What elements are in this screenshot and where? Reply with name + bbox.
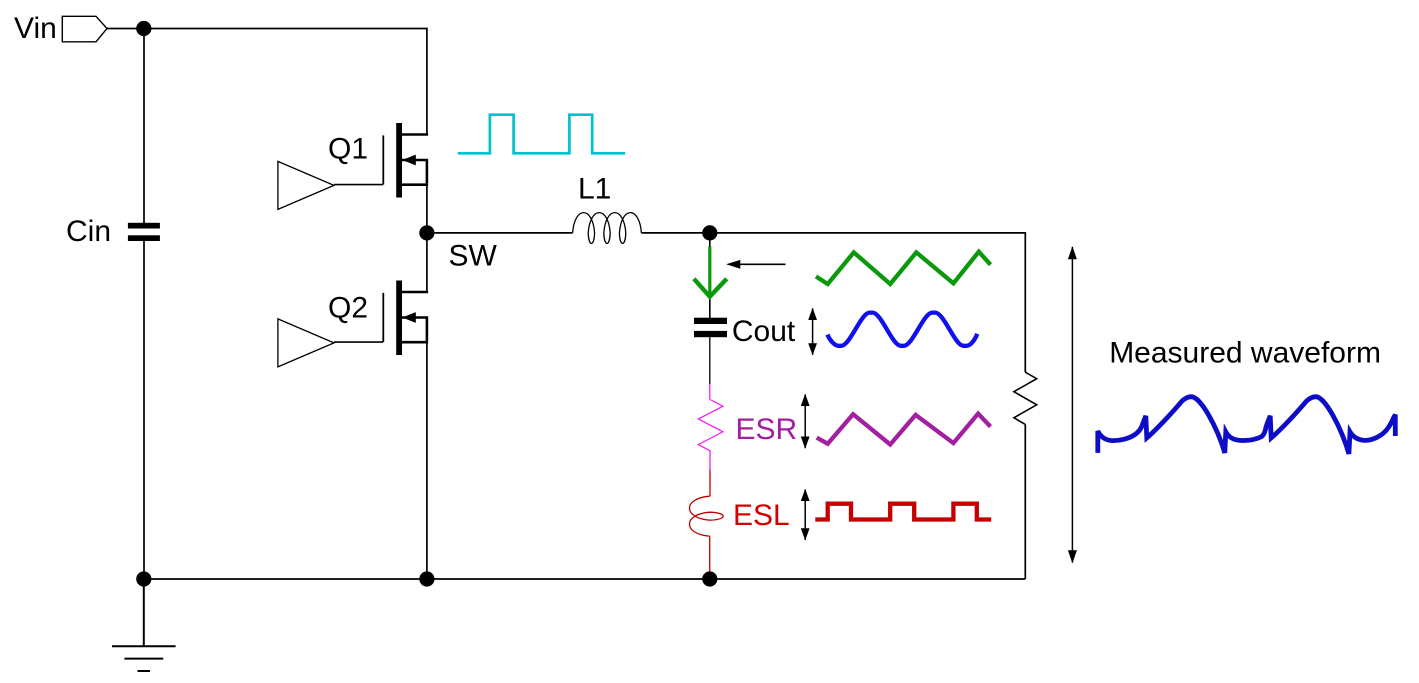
- current arrow (green) into Cout: [694, 247, 727, 297]
- measure arrow Cout ripple: [808, 308, 817, 356]
- inductor L1: [573, 213, 642, 244]
- wire top rail: [144, 29, 427, 134]
- svg-text:Vin: Vin: [14, 12, 57, 45]
- waveform Cout ripple (blue sine): [827, 313, 977, 346]
- node SW junction: [419, 225, 434, 240]
- gate driver U1 triangle: [278, 161, 334, 209]
- wire Q1 gate: [334, 184, 383, 186]
- wire left vertical lower: [143, 241, 145, 579]
- waveform ESR ripple (purple triangle): [817, 414, 991, 445]
- wire Q2 gate: [334, 341, 383, 343]
- pointer arrow to current (black): [726, 260, 785, 269]
- measure arrow ESL ripple: [801, 489, 810, 541]
- transistor Q1: [382, 123, 428, 198]
- node bottom Q2 junction: [419, 571, 434, 586]
- wire L1 to output node: [641, 232, 709, 234]
- capacitor Cin: [128, 223, 160, 241]
- waveform gate pulse (cyan): [458, 115, 625, 154]
- wire Rload to bottom rail: [1024, 424, 1026, 579]
- svg-text:Cin: Cin: [66, 215, 111, 248]
- node output junction: [702, 225, 717, 240]
- svg-text:SW: SW: [449, 239, 498, 272]
- svg-text:L1: L1: [578, 173, 611, 206]
- wire left vertical upper: [143, 29, 145, 224]
- wire ESR to ESL (magenta then red): [709, 451, 711, 470]
- wire Q2 drain to SW: [426, 233, 428, 292]
- svg-text:Q1: Q1: [328, 133, 368, 166]
- svg-text:Cout: Cout: [732, 315, 796, 348]
- wire ESL to bottom rail (red): [709, 536, 711, 579]
- node bottom-left junction: [136, 571, 151, 586]
- node bottom output junction: [702, 571, 717, 586]
- svg-text:Measured waveform: Measured waveform: [1109, 337, 1381, 370]
- waveform inductor ripple (green triangle): [816, 252, 991, 284]
- ground: [112, 579, 176, 671]
- wire Vin terminal to node: [107, 28, 144, 30]
- gate driver U2 triangle: [278, 319, 334, 367]
- capacitor Cout: [694, 318, 727, 337]
- inductor ESL: [689, 496, 723, 536]
- svg-text:Q2: Q2: [328, 292, 368, 325]
- wire output node down to Cout: [709, 233, 711, 318]
- wire Q1 source to SW: [426, 185, 428, 233]
- wire bottom rail: [144, 578, 1026, 580]
- svg-text:ESL: ESL: [733, 499, 790, 532]
- node Vin junction: [136, 21, 151, 36]
- wire SW to L1: [427, 232, 573, 234]
- svg-text:ESR: ESR: [736, 413, 798, 446]
- transistor Q2: [382, 281, 428, 356]
- measure arrow ESR ripple: [801, 394, 810, 449]
- resistor Rload: [1014, 372, 1037, 424]
- resistor ESR: [698, 400, 723, 451]
- wire output node to load branch: [710, 233, 1026, 372]
- waveform measured output (blue composite): [1098, 397, 1396, 454]
- terminal Vin flag: [62, 16, 107, 42]
- waveform ESL ripple (red square): [815, 504, 991, 520]
- measure arrow total output ripple: [1068, 246, 1077, 563]
- wire Cout to ESR (black then magenta): [709, 337, 711, 384]
- wire Q2 source to bottom rail: [426, 342, 428, 579]
